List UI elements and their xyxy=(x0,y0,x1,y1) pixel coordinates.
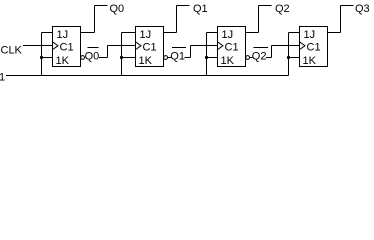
wire Q2 top stub xyxy=(259,5,272,7)
svg-text:1: 1 xyxy=(0,72,5,84)
wire Q0 top stub xyxy=(95,5,108,7)
wire U4 Q output to Q3 riser xyxy=(328,32,341,34)
wire CLK input to U1 clock xyxy=(23,45,53,47)
svg-text:CLK: CLK xyxy=(1,45,23,57)
wire Q3 top stub xyxy=(341,5,354,7)
U4 clock edge-trigger symbol xyxy=(300,42,306,50)
wire into next clock input xyxy=(108,45,136,47)
svg-text:1J: 1J xyxy=(57,29,69,41)
overline bar for Q0-bar xyxy=(88,47,99,49)
wire Q0-bar riser to clock row xyxy=(107,46,109,58)
wire 1-rail riser to U4 J input xyxy=(289,32,300,34)
svg-text:1K: 1K xyxy=(303,55,317,67)
wire logic-1 rail xyxy=(6,75,289,77)
U2 inverted output bubble xyxy=(164,56,168,60)
U1 inverted output bubble xyxy=(81,56,85,60)
wire into next clock input xyxy=(272,45,300,47)
wire Q0 riser xyxy=(94,6,96,33)
wire into next clock input xyxy=(191,45,218,47)
svg-text:1K: 1K xyxy=(56,55,70,67)
wire Q2 riser xyxy=(258,6,260,33)
wire Q1-bar riser to clock row xyxy=(190,46,192,58)
U3 inverted output bubble xyxy=(246,56,250,60)
wire Q3 riser xyxy=(340,6,342,33)
JK flip-flop U4 body xyxy=(300,27,328,67)
junction dot at U1 K tap xyxy=(40,56,43,59)
svg-text:C1: C1 xyxy=(225,42,239,54)
svg-text:Q2: Q2 xyxy=(252,51,267,63)
U1 clock edge-trigger symbol xyxy=(53,42,59,50)
svg-text:Q0: Q0 xyxy=(110,3,125,15)
wire U1 Qbar to U2 clock xyxy=(85,57,108,59)
wire U2 Qbar to U3 clock xyxy=(168,57,191,59)
svg-text:1J: 1J xyxy=(222,29,234,41)
wire U3 Q output to Q2 riser xyxy=(246,32,259,34)
net label Q2-bar xyxy=(252,50,266,60)
U2 clock edge-trigger symbol xyxy=(136,42,142,50)
svg-text:C1: C1 xyxy=(307,42,321,54)
svg-text:Q1: Q1 xyxy=(193,3,208,15)
wire Q1 riser xyxy=(176,6,178,33)
overline bar for Q2-bar xyxy=(254,47,269,49)
wire 1-rail riser to U2 J input xyxy=(122,32,136,34)
wire 1-rail riser to U1 J input xyxy=(42,32,53,34)
svg-text:Q0: Q0 xyxy=(85,51,100,63)
wire 1-rail riser to U3 J input xyxy=(207,32,218,34)
junction dot at U4 K tap xyxy=(287,56,290,59)
wire tap to U2 K input xyxy=(122,57,136,59)
wire U1 Q output to Q0 riser xyxy=(81,32,95,34)
wire tap to U1 K input xyxy=(42,57,53,59)
wire Q2-bar riser to clock row xyxy=(271,46,273,58)
wire U2 Q output to Q1 riser xyxy=(164,32,177,34)
svg-text:Q2: Q2 xyxy=(275,3,290,15)
wire U3 Qbar to U4 clock xyxy=(250,57,272,59)
junction dot at U2 K tap xyxy=(120,56,123,59)
U3 clock edge-trigger symbol xyxy=(218,42,224,50)
junction dot at U3 K tap xyxy=(205,56,208,59)
wire tap to U4 K input xyxy=(289,57,300,59)
svg-text:1J: 1J xyxy=(140,29,152,41)
net label Q0-bar xyxy=(85,50,99,60)
svg-text:1J: 1J xyxy=(304,29,316,41)
wire tap to U3 K input xyxy=(207,57,218,59)
JK flip-flop U2 body xyxy=(136,27,164,67)
JK flip-flop U1 body xyxy=(53,27,81,67)
svg-text:1K: 1K xyxy=(221,55,235,67)
svg-text:Q1: Q1 xyxy=(170,51,185,63)
overline bar for Q1-bar xyxy=(172,47,186,49)
JK flip-flop U3 body xyxy=(218,27,246,67)
net label Q1-bar xyxy=(171,50,185,60)
svg-text:Q3: Q3 xyxy=(355,3,370,15)
svg-text:C1: C1 xyxy=(143,42,157,54)
svg-text:1K: 1K xyxy=(139,55,153,67)
wire Q1 top stub xyxy=(177,5,190,7)
svg-text:C1: C1 xyxy=(60,42,74,54)
